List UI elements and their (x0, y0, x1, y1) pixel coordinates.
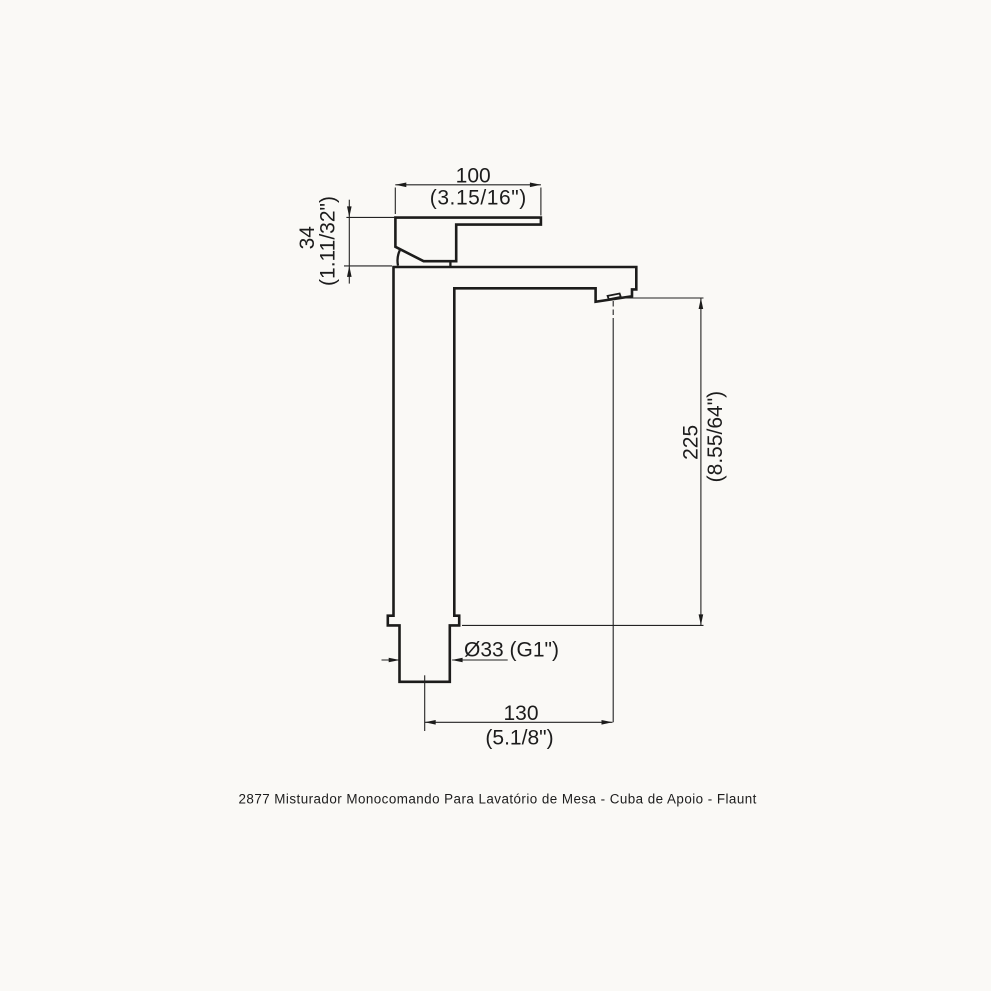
dim 33 leader left (382, 659, 400, 661)
dim 100 arrow right (530, 183, 541, 188)
dim 130 dimension line (425, 721, 613, 723)
dim 34 extension line bottom (344, 265, 392, 267)
dim 225 extension line top (620, 297, 704, 299)
dim 225 arrow down (699, 614, 704, 625)
svg-text:225: 225 (680, 425, 703, 460)
dim 225 arrow up (699, 298, 704, 309)
dim 100 arrow left (395, 183, 406, 188)
dim 225 extension line bottom (462, 624, 704, 626)
aerator centerline dashed (612, 301, 614, 319)
dim 130 arrow left (425, 720, 436, 725)
dim 130 arrow right (602, 720, 613, 725)
dim 34 arrow down (347, 206, 352, 217)
dim 33 arrow left-pointing (452, 658, 463, 663)
dim 34 dimension line (348, 200, 350, 284)
dim 225 dimension line (700, 298, 702, 625)
svg-text:100: 100 (456, 165, 491, 188)
aerator outlet (608, 294, 621, 300)
svg-text:2877 Misturador Monocomando Pa: 2877 Misturador Monocomando Para Lavatór… (239, 791, 757, 806)
svg-text:Ø33 (G1"): Ø33 (G1") (464, 639, 559, 662)
dim 34 arrow up (347, 266, 352, 277)
svg-text:130: 130 (503, 702, 538, 725)
dim 100 extension line right (540, 188, 542, 216)
dim 100 extension line left (394, 188, 396, 215)
cartridge neck line (449, 261, 451, 266)
dim 34 extension line top (346, 216, 395, 218)
shank centerline (424, 675, 426, 731)
svg-text:(1.11/32"): (1.11/32") (317, 196, 340, 286)
svg-text:(3.15/16"): (3.15/16") (430, 186, 527, 209)
dim 33 arrow right-pointing (389, 658, 400, 663)
handle base fillet arc (397, 250, 399, 265)
dim 33 leader right (452, 659, 508, 661)
faucet body outline (388, 267, 637, 682)
dim 100 dimension line (395, 184, 541, 186)
svg-text:(5.1/8"): (5.1/8") (485, 726, 553, 749)
faucet handle lever (395, 218, 541, 262)
svg-text:(8.55/64"): (8.55/64") (704, 391, 727, 483)
